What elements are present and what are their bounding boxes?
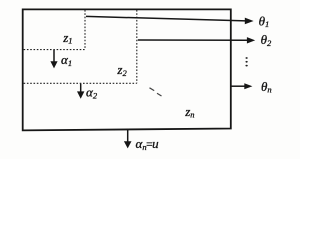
svg-text:αn=u: αn=u [136,136,160,152]
svg-text:z1: z1 [62,30,72,46]
svg-text:zn: zn [184,104,194,120]
svg-text:z2: z2 [116,62,127,78]
svg-text:α1: α1 [61,52,72,68]
svg-text:θ2: θ2 [261,32,272,48]
svg-text:θn: θn [261,79,272,95]
svg-text:α2: α2 [86,84,98,100]
svg-text:θ1: θ1 [259,13,270,29]
